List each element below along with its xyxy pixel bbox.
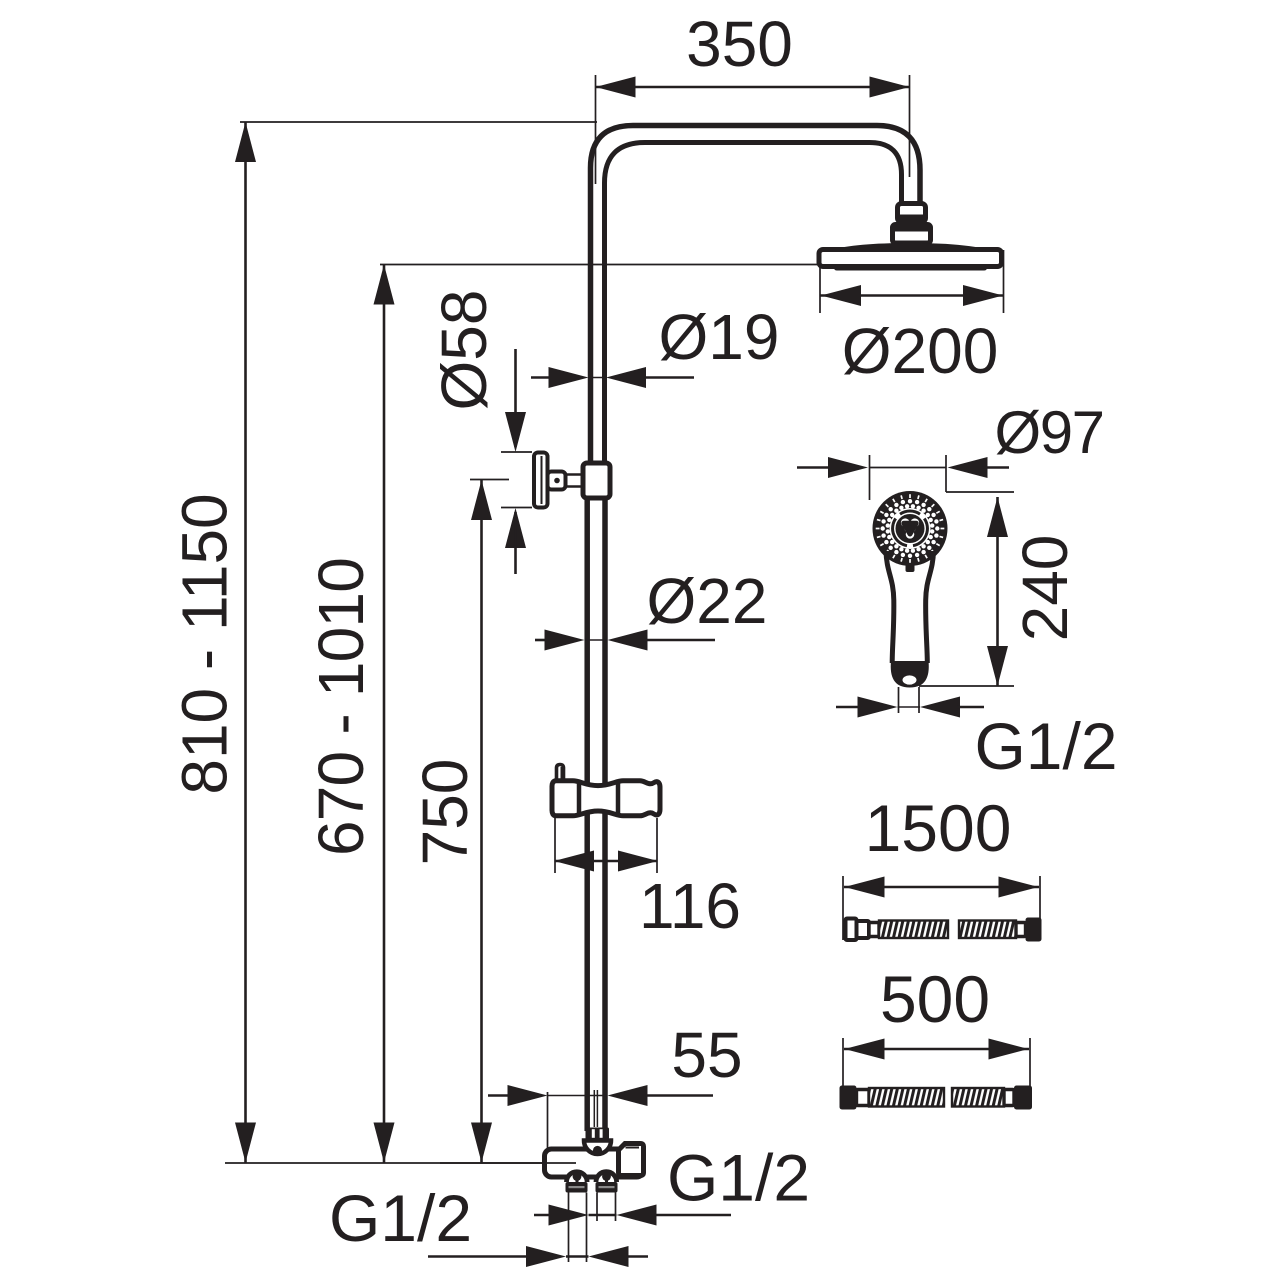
mixer outlet square xyxy=(619,1144,644,1176)
dimension Ø58 arrow up xyxy=(505,508,526,548)
dimension Ø97 mid line xyxy=(870,467,947,469)
hose 500 corrugation left xyxy=(869,1088,944,1107)
hose 1500 end fitting xyxy=(1026,918,1042,942)
wall bracket pin dot xyxy=(554,478,560,484)
dimension Ø200 arrow left xyxy=(821,285,861,306)
mixer body xyxy=(545,1149,644,1177)
svg-text:Ø97: Ø97 xyxy=(995,399,1104,466)
mixer inlet nut xyxy=(586,1128,610,1140)
mixer hose port dome right xyxy=(596,1172,617,1182)
wall bracket link top xyxy=(566,473,585,476)
dimension hand G1/2 left line xyxy=(836,706,861,709)
mixer outlet inner line xyxy=(626,1147,640,1149)
dimension hand G1/2 arrow right xyxy=(858,697,898,718)
dimension 750 arrow down xyxy=(471,1123,492,1163)
hand shower handle right edge xyxy=(926,551,934,663)
dimension 350 label xyxy=(686,8,793,80)
dimension 116 label xyxy=(639,870,741,942)
dimension Ø19 label xyxy=(659,301,780,373)
dimension G1/2 right left line xyxy=(534,1214,552,1217)
label G1/2 bottom left xyxy=(329,1181,472,1255)
hose 1500 corrugation right xyxy=(959,921,1016,939)
dimension 670 - 1010 label xyxy=(305,558,377,856)
hand shower centre trefoil white xyxy=(901,518,919,538)
dimension 55 extension left xyxy=(547,1092,549,1148)
dimension Ø200 arrow right xyxy=(963,285,1003,306)
wall bracket link bottom xyxy=(566,485,585,488)
hand shower handle cap xyxy=(891,661,929,688)
hose 500 ferrule right xyxy=(1004,1090,1014,1106)
dimension 116 extension right xyxy=(656,818,658,873)
dimension Ø22 right line xyxy=(645,639,715,642)
rain head connection nut xyxy=(898,204,926,223)
hose 1500 ferrule right xyxy=(1016,923,1026,937)
dimension 55 tip line xyxy=(548,1095,608,1097)
dimension 810 - 1150 line xyxy=(244,122,247,1163)
dimension Ø58 label xyxy=(428,290,500,411)
svg-text:810 - 1150: 810 - 1150 xyxy=(169,493,241,794)
hose 1500 ferrule left xyxy=(869,923,879,937)
dimension Ø22 label xyxy=(647,565,768,637)
dimension hand G1/2 right line xyxy=(957,706,984,709)
dimension Ø58 tick top xyxy=(501,451,532,453)
dimension 750 line xyxy=(480,480,483,1163)
dimension Ø58 tick bottom xyxy=(501,507,532,509)
dimension Ø19 left line xyxy=(531,376,552,379)
dimension Ø58 arrow down xyxy=(505,412,526,452)
wall bracket pin housing xyxy=(548,472,566,490)
dimension 116 arrow right xyxy=(618,851,658,872)
hose 500 end fitting left xyxy=(840,1086,857,1110)
dimension 240 line xyxy=(996,497,999,686)
dimension 240 label xyxy=(1009,535,1081,642)
dimension 810 - 1150 label xyxy=(169,493,241,794)
dimension Ø200 extension left xyxy=(819,262,821,313)
reference line top of column xyxy=(240,121,597,123)
dimension Ø22 left line xyxy=(535,639,549,642)
rain head dome top xyxy=(820,243,1000,255)
dimension Ø19 right line xyxy=(644,376,694,379)
dimension Ø97 arrow left xyxy=(948,457,988,478)
dimension 500 arrow right xyxy=(989,1039,1029,1060)
mixer body leader line G1/2 xyxy=(440,1162,576,1164)
mixer inlet nut slots xyxy=(592,1129,603,1138)
dimension Ø58 upper shaft xyxy=(514,349,517,447)
mixer ball joint dot xyxy=(593,1146,602,1155)
dimension G1/2 right arrow left xyxy=(617,1205,657,1226)
svg-text:750: 750 xyxy=(409,759,481,866)
dimension Ø19 tip line xyxy=(589,377,607,379)
svg-text:350: 350 xyxy=(686,8,793,80)
slider holder divider left xyxy=(577,782,582,815)
dimension Ø200 label xyxy=(842,315,999,387)
dimension Ø19 arrow left xyxy=(606,367,646,388)
wire riser pipe lower left wall xyxy=(584,497,590,1131)
dimension 670 - 1010 arrow up xyxy=(374,265,395,305)
dimension Ø200 line xyxy=(821,294,1004,297)
thread line left inner xyxy=(586,1193,588,1263)
dimension 55 left line xyxy=(488,1094,512,1097)
hand shower cap highlight xyxy=(903,675,917,684)
dimension 116 arrow left xyxy=(554,851,594,872)
svg-text:116: 116 xyxy=(639,870,741,942)
dimension Ø97 arrow right xyxy=(828,457,868,478)
dimension Ø22 arrow left xyxy=(608,630,648,651)
dimension 810 - 1150 arrow up xyxy=(235,122,256,162)
dimension 500 line xyxy=(844,1048,1029,1051)
label 1500 xyxy=(865,791,1012,865)
svg-text:Ø58: Ø58 xyxy=(428,290,500,411)
dimension 1500 arrow right xyxy=(999,877,1039,898)
dimension Ø97 label xyxy=(995,399,1104,466)
dimension Ø19 arrow right xyxy=(549,367,589,388)
slider holder divider right xyxy=(616,782,621,815)
dimension 1500 extension left xyxy=(842,876,844,940)
dimension 55 label xyxy=(671,1019,742,1091)
mixer ball joint xyxy=(584,1141,611,1155)
dimension hand G1/2 tip line xyxy=(898,706,921,708)
mixer hose port dot right xyxy=(602,1172,611,1183)
hose 500 corrugation right xyxy=(952,1088,1004,1107)
dimension G1/2 bottom right line xyxy=(626,1255,648,1258)
baseline at mixer centre xyxy=(225,1162,576,1164)
mixer hose port dome left xyxy=(567,1172,588,1182)
hose 500 end fitting right xyxy=(1014,1086,1032,1110)
rain head upper collar xyxy=(893,225,931,244)
mixer hose nut right slot xyxy=(599,1186,615,1188)
thread line right inner xyxy=(596,1193,598,1222)
dimension 670 - 1010 arrow down xyxy=(374,1123,395,1163)
slider holder tab inner line xyxy=(561,767,563,779)
svg-text:G1/2: G1/2 xyxy=(329,1181,472,1255)
mixer hose nut left slot xyxy=(569,1186,585,1188)
svg-text:Ø200: Ø200 xyxy=(842,315,999,387)
dimension 1500 line xyxy=(844,886,1039,889)
dimension G1/2 bottom left line xyxy=(428,1255,530,1258)
svg-text:G1/2: G1/2 xyxy=(974,709,1117,783)
dimension Ø22 arrow right xyxy=(545,630,585,651)
rain head collar top band xyxy=(895,226,929,232)
dimension 500 extension right xyxy=(1029,1038,1031,1086)
label hand shower G1/2 xyxy=(974,709,1117,783)
dimension 750 label xyxy=(409,759,481,866)
svg-text:240: 240 xyxy=(1009,535,1081,642)
dimension 350 arrow right xyxy=(870,77,910,98)
dimension G1/2 bottom arrow left xyxy=(589,1246,629,1267)
rain head nut lower band xyxy=(900,215,923,222)
hand shower nozzle ring xyxy=(876,494,945,563)
wire riser pipe upper + shower arm outer wall xyxy=(591,126,921,467)
dimension 1500 arrow left xyxy=(845,877,885,898)
hand shower thread line right xyxy=(918,687,920,713)
mixer hose port dot left xyxy=(573,1172,582,1183)
svg-text:670 - 1010: 670 - 1010 xyxy=(305,558,377,856)
dimension G1/2 right right line xyxy=(654,1214,731,1217)
slider holder release tab xyxy=(557,765,564,781)
slider holder body xyxy=(552,781,660,816)
dimension 116 extension left xyxy=(554,818,556,873)
dimension 116 line xyxy=(555,860,657,863)
hand shower mode button xyxy=(906,564,915,572)
riser junction collar xyxy=(583,463,610,498)
dimension 670 - 1010 line xyxy=(383,265,386,1163)
dimension 240 arrow down xyxy=(987,646,1008,686)
thread line left outer xyxy=(568,1193,570,1263)
reference line bottom of rain head xyxy=(380,264,820,266)
dimension 750 tick xyxy=(470,479,509,481)
dimension G1/2 bottom shaft xyxy=(566,1255,589,1258)
dimension Ø58 lower shaft xyxy=(514,512,517,574)
dimension 500 extension left xyxy=(842,1038,844,1086)
dimension G1/2 right shaft xyxy=(589,1214,617,1217)
dimension 1500 extension right xyxy=(1039,876,1041,940)
dimension 240 extension bottom xyxy=(919,685,1014,687)
hand shower ring arcs xyxy=(893,511,928,546)
dimension 55 centre stub xyxy=(594,1090,597,1127)
svg-text:Ø19: Ø19 xyxy=(659,301,780,373)
mixer hose nut left xyxy=(566,1182,588,1193)
dimension 500 arrow left xyxy=(845,1039,885,1060)
dimension Ø97 extension left xyxy=(869,455,871,500)
rain head bottom lip xyxy=(834,264,987,271)
dimension Ø97 right line xyxy=(982,466,1009,469)
hose 500 ferrule left xyxy=(857,1090,870,1106)
dimension G1/2 bottom arrow right xyxy=(526,1246,566,1267)
dimension Ø97 left line xyxy=(797,466,834,469)
dimension 240 extension top xyxy=(946,491,1014,493)
hand shower head disc xyxy=(873,491,948,566)
svg-text:500: 500 xyxy=(880,962,990,1036)
label G1/2 right xyxy=(667,1140,810,1214)
rain head body xyxy=(819,250,1002,267)
svg-text:1500: 1500 xyxy=(865,791,1012,865)
wire riser pipe upper + shower arm inner wall xyxy=(605,143,902,467)
dimension G1/2 right arrow right xyxy=(549,1205,589,1226)
dimension 350 line xyxy=(596,86,910,89)
dimension hand G1/2 arrow left xyxy=(920,697,960,718)
wall bracket plate xyxy=(534,453,548,508)
hand shower thread line left xyxy=(898,687,900,713)
hand shower centre triangle xyxy=(904,523,916,534)
wire riser pipe lower right wall xyxy=(602,497,608,1131)
dimension 810 - 1150 arrow down xyxy=(235,1123,256,1163)
label 500 xyxy=(880,962,990,1036)
dimension Ø200 extension right xyxy=(1003,250,1005,313)
dimension 240 arrow up xyxy=(987,497,1008,537)
dimension 55 arrow left xyxy=(608,1085,648,1106)
hand shower handle left edge xyxy=(886,551,894,663)
dimension 750 arrow up xyxy=(471,480,492,520)
hose 1500 conical nut xyxy=(846,919,870,941)
dimension 55 arrow right xyxy=(508,1085,548,1106)
thread line right outer xyxy=(615,1193,617,1222)
hose 1500 corrugation left xyxy=(879,921,948,939)
dimension 350 arrow left xyxy=(596,77,636,98)
dimension 55 right line xyxy=(645,1094,713,1097)
hand shower white ring xyxy=(893,511,928,546)
wall bracket plate inner line xyxy=(541,456,543,504)
svg-text:55: 55 xyxy=(671,1019,742,1091)
dimension 350 extension left xyxy=(595,75,597,184)
svg-text:Ø22: Ø22 xyxy=(647,565,768,637)
dimension Ø97 extension right xyxy=(945,455,947,492)
mixer hose nut right xyxy=(596,1182,618,1193)
dimension 350 extension right xyxy=(909,75,911,177)
svg-text:G1/2: G1/2 xyxy=(667,1140,810,1214)
dimension Ø22 tip line xyxy=(585,639,608,641)
